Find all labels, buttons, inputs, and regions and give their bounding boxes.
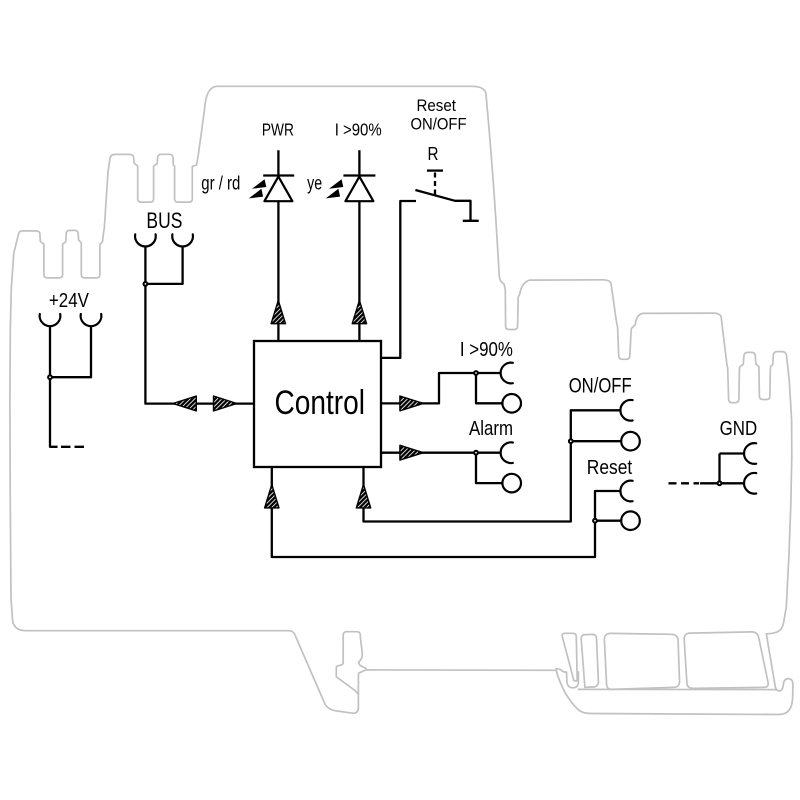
svg-text:Alarm: Alarm	[469, 417, 513, 440]
svg-text:GND: GND	[720, 418, 758, 440]
svg-text:gr / rd: gr / rd	[201, 174, 240, 195]
svg-text:PWR: PWR	[262, 120, 294, 140]
svg-text:I >90%: I >90%	[460, 338, 513, 361]
svg-text:R: R	[428, 143, 439, 164]
svg-text:+24V: +24V	[49, 290, 90, 312]
svg-text:Control: Control	[274, 384, 365, 422]
svg-text:ON/OFF: ON/OFF	[569, 374, 632, 397]
svg-text:ye: ye	[307, 174, 322, 195]
svg-text:Reset: Reset	[416, 96, 456, 115]
svg-text:I >90%: I >90%	[335, 120, 382, 140]
svg-text:Reset: Reset	[587, 456, 633, 479]
svg-text:ON/OFF: ON/OFF	[411, 114, 467, 133]
svg-text:BUS: BUS	[146, 208, 182, 233]
